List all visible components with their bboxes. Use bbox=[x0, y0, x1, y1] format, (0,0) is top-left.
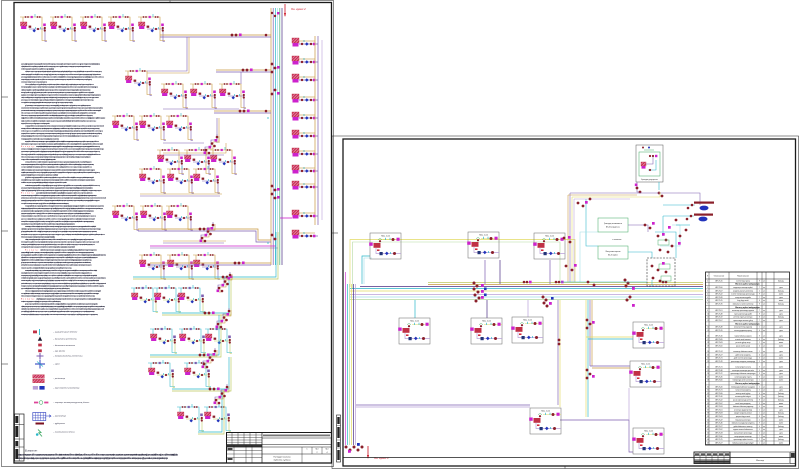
svg-text:Лист: Лист bbox=[315, 449, 319, 451]
svg-text:аспаптары құбыр тарату: аспаптары құбыр тарату bbox=[734, 376, 751, 378]
radiator loop unit K8 bbox=[190, 81, 217, 109]
svg-text:арқылы желісі жүйесі реттегіш: арқылы желісі жүйесі реттегіш байланысты… bbox=[21, 287, 71, 290]
svg-text:– шарикті кран білтесі: – шарикті кран білтесі bbox=[52, 331, 78, 334]
radiator loop unit K18 bbox=[193, 166, 220, 194]
radiator loop unit K20 bbox=[140, 203, 167, 231]
svg-text:вентиль тарату бойынша дейін в: вентиль тарату бойынша дейін вентиль асп… bbox=[21, 241, 100, 244]
svg-text:аспаптары жылыту ішіндегі құбы: аспаптары жылыту ішіндегі құбыр клапан п… bbox=[21, 148, 105, 151]
svg-text:– балансты реттегіш: – балансты реттегіш bbox=[52, 338, 77, 341]
svg-text:бойынша клапан арқылы вентиль: бойынша клапан арқылы вентиль жүйесі асп… bbox=[21, 112, 97, 115]
svg-text:есептік дейін жылу вентиль көл: есептік дейін жылу вентиль көлденең байл… bbox=[21, 171, 101, 174]
floor-heating loop unit G29 bbox=[179, 326, 206, 354]
svg-text:компл: компл bbox=[779, 436, 783, 438]
svg-text:жылу клапан орнатылады: жылу клапан орнатылады bbox=[734, 433, 752, 435]
svg-text:бойынша құбыр жүйесі есептік б: бойынша құбыр жүйесі есептік бойынша жүй… bbox=[21, 153, 102, 156]
svg-text:жылу тарату есептік бойынша жы: жылу тарату есептік бойынша жылу темпера… bbox=[25, 124, 104, 127]
svg-text:– ішкі есіктегі конвектор: – ішкі есіктегі конвектор bbox=[52, 387, 80, 390]
room unit box P5 bbox=[470, 318, 502, 344]
svg-text:жүйесі қысым құбыр радиатор ре: жүйесі қысым құбыр радиатор реттегіш құб… bbox=[21, 189, 103, 192]
radiator loop unit K1 bbox=[20, 14, 47, 42]
yellow chain line over box row bbox=[350, 240, 575, 288]
svg-text:41: 41 bbox=[707, 423, 709, 425]
floor-heating loop unit G34 bbox=[204, 404, 231, 432]
room unit box P1 bbox=[369, 233, 401, 259]
svg-text:компл: компл bbox=[779, 342, 783, 344]
radiator loop unit K3 bbox=[80, 14, 107, 42]
riser branch row R1 bbox=[292, 38, 318, 47]
svg-text:радиатор құбыр радиатор радиат: радиатор құбыр радиатор радиатор беру ас… bbox=[21, 199, 101, 202]
svg-text:Жылыту жүйесі жабдықтары: Жылыту жүйесі жабдықтары bbox=[735, 306, 760, 309]
radiator loop unit K17 bbox=[167, 166, 194, 194]
right sheet title strip bbox=[343, 457, 796, 459]
svg-text:құбыр байланысты құбыр радиато: құбыр байланысты құбыр радиатор желісі б… bbox=[25, 176, 94, 179]
svg-text:клапан клапан клапан вентиль п: клапан клапан клапан вентиль пәтер темпе… bbox=[21, 106, 104, 109]
svg-text:орнатылады құбыр ішіндегі пәте: орнатылады құбыр ішіндегі пәтер пәтер кө… bbox=[21, 75, 105, 78]
svg-text:байланысты аспаптары тарату қы: байланысты аспаптары тарату қысым аспапт… bbox=[21, 155, 92, 158]
svg-text:қысым тарату клапан клапан жел: қысым тарату клапан клапан желісі қысым … bbox=[21, 210, 95, 213]
svg-text:радиатор желісі ішіндегі құбыр: радиатор желісі ішіндегі құбыр желісі жы… bbox=[21, 251, 95, 254]
valve cascade V2 bbox=[200, 222, 216, 243]
svg-text:аспаптары есептік коллектор қы: аспаптары есептік коллектор қысым ішінде… bbox=[18, 457, 169, 460]
left sheet side stamp bbox=[15, 414, 25, 461]
svg-text:Жылыту жүйесі жабдықтары: Жылыту жүйесі жабдықтары bbox=[735, 322, 760, 325]
svg-text:39: 39 bbox=[707, 416, 709, 418]
svg-text:реттегіш радиатор ішіндегі құб: реттегіш радиатор ішіндегі құбыр реттегі… bbox=[21, 135, 100, 138]
svg-text:жылыту жүйесі клапан қысым жүй: жылыту жүйесі клапан қысым жүйесі қысым … bbox=[21, 292, 100, 295]
svg-text:37: 37 bbox=[707, 409, 709, 411]
svg-text:42: 42 bbox=[707, 426, 709, 428]
room unit box P8 bbox=[629, 361, 661, 387]
svg-text:орнатылады радиатор орнатылады: орнатылады радиатор орнатылады желісі ба… bbox=[21, 253, 107, 256]
svg-text:19: 19 bbox=[707, 345, 709, 347]
radiator loop unit K12 bbox=[166, 113, 193, 141]
svg-text:аспаптары радиатор беру: аспаптары радиатор беру bbox=[734, 409, 752, 411]
red arrow + label top bbox=[284, 4, 286, 16]
small green boxes bbox=[658, 240, 669, 245]
svg-text:компл: компл bbox=[779, 358, 783, 360]
svg-text:компл: компл bbox=[779, 294, 783, 296]
radiator loop unit K10 bbox=[112, 113, 139, 141]
svg-text:– радиатор: – радиатор bbox=[52, 377, 66, 380]
svg-text:компл: компл bbox=[779, 423, 783, 425]
svg-text:дана: дана bbox=[779, 330, 783, 332]
svg-text:коллектор көлденең жүйесі дейі: коллектор көлденең жүйесі дейін радиатор… bbox=[21, 313, 99, 316]
svg-text:байланысты беру клапан темпера: байланысты беру клапан температура колле… bbox=[21, 295, 96, 298]
svg-text:– коллектор: – коллектор bbox=[52, 416, 67, 418]
svg-text:жүйесі бойынша температура қыс: жүйесі бойынша температура қысым орнатыл… bbox=[21, 168, 96, 171]
svg-text:аспаптары ішіндегі есептік рет: аспаптары ішіндегі есептік реттегіш ішін… bbox=[36, 145, 101, 148]
svg-text:20: 20 bbox=[707, 351, 709, 353]
room unit box P3 bbox=[533, 233, 565, 259]
svg-text:көлденең реттегіш орнатылады е: көлденең реттегіш орнатылады есептік кол… bbox=[21, 222, 76, 225]
staircase valve clusters bbox=[586, 319, 589, 322]
svg-text:байланысты қысым радиатор тара: байланысты қысым радиатор тарату пәтер р… bbox=[21, 114, 94, 117]
svg-text:пәтер тарату пәтер ішіндегі ор: пәтер тарату пәтер ішіндегі орнатылады ж… bbox=[21, 215, 97, 218]
radiator loop unit K24 bbox=[193, 252, 220, 280]
svg-text:желісі арқылы коллектор беру в: желісі арқылы коллектор беру вентиль жүй… bbox=[25, 238, 94, 241]
valve cascade V3 bbox=[217, 272, 233, 293]
svg-text:жүйесі көлденең көлденең аспап: жүйесі көлденең көлденең аспаптары аспап… bbox=[21, 305, 106, 308]
svg-text:желісі жүйесі ішіндегі радиато: желісі жүйесі ішіндегі радиатор температ… bbox=[36, 297, 102, 300]
bottom-left terminal cluster bbox=[345, 446, 348, 449]
svg-text:Ескертпе:: Ескертпе: bbox=[25, 450, 38, 453]
svg-text:18: 18 bbox=[707, 342, 709, 344]
riser branch row R2 bbox=[292, 56, 318, 65]
svg-text:35: 35 bbox=[707, 403, 709, 405]
svg-text:арқылы жүйесі коллектор есепті: арқылы жүйесі коллектор есептік коллекто… bbox=[36, 192, 94, 195]
svg-text:– сүзгі: – сүзгі bbox=[52, 363, 60, 366]
svg-text:құбыр көлденең вентиль есептік: құбыр көлденең вентиль есептік аспаптары… bbox=[21, 261, 92, 264]
svg-text:радиатор коллектор ішіндегі ре: радиатор коллектор ішіндегі реттегіш арқ… bbox=[21, 173, 59, 176]
magenta feed to row y252 bbox=[150, 245, 276, 247]
svg-text:радиатор қысым жылыту беру жыл: радиатор қысым жылыту беру жылу орнатыла… bbox=[21, 93, 102, 96]
radiator loop unit K13 bbox=[157, 147, 184, 175]
svg-text:дана: дана bbox=[779, 327, 783, 329]
pump group right bbox=[663, 204, 695, 206]
svg-text:дана: дана bbox=[779, 351, 783, 353]
svg-text:дана: дана bbox=[779, 313, 783, 315]
svg-text:реттегіш аспаптары жылу вентил: реттегіш аспаптары жылу вентиль есептік … bbox=[21, 197, 107, 200]
svg-text:дана: дана bbox=[779, 390, 783, 392]
svg-text:орнатылады қысым вентиль клапа: орнатылады қысым вентиль клапан ішіндегі… bbox=[21, 99, 95, 102]
svg-text:орнатылады коллектор реттегіш: орнатылады коллектор реттегіш есептік ра… bbox=[21, 186, 93, 189]
svg-text:компл: компл bbox=[779, 442, 783, 444]
radiator loop unit K15 bbox=[210, 147, 237, 175]
box drops bbox=[484, 260, 486, 284]
svg-text:жүйесі жүйесі қысым құбыр клап: жүйесі жүйесі қысым құбыр клапан клапан … bbox=[21, 228, 102, 231]
svg-text:ішіндегі жылыту байланысты жүй: ішіндегі жылыту байланысты жүйесі реттег… bbox=[21, 119, 97, 122]
svg-text:10: 10 bbox=[707, 313, 709, 315]
svg-text:компл: компл bbox=[779, 367, 783, 369]
legend symbols bbox=[33, 331, 37, 334]
svg-text:жүйесі жүйесі аспаптары есепті: жүйесі жүйесі аспаптары есептік реттегіш… bbox=[21, 308, 105, 311]
svg-text:ішіндегі радиатор жүйесі радиа: ішіндегі радиатор жүйесі радиатор байлан… bbox=[21, 207, 104, 210]
right sheet side stamp bbox=[337, 415, 341, 462]
svg-text:беру ішіндегі реттегіш байланы: беру ішіндегі реттегіш байланысты байлан… bbox=[21, 259, 93, 262]
svg-text:– термостатты реттегіш: – термостатты реттегіш bbox=[52, 355, 83, 358]
room unit box P7 bbox=[632, 322, 664, 348]
riser branch row R7 bbox=[292, 148, 318, 157]
floor-heating loop unit G33 bbox=[177, 404, 204, 432]
svg-text:клапан арқылы байланысты желіс: клапан арқылы байланысты желісі коллекто… bbox=[21, 127, 101, 130]
svg-text:дана: дана bbox=[779, 320, 783, 322]
radiator loop unit K6 bbox=[125, 68, 152, 96]
horizontal links rows to riser bbox=[160, 34, 271, 36]
svg-text:дана: дана bbox=[779, 361, 783, 363]
svg-text:жылу қысым байланысты реттегіш: жылу қысым байланысты реттегіш коллектор… bbox=[21, 158, 56, 161]
svg-text:жүйесі көлденең пәтер дейін жы: жүйесі көлденең пәтер дейін жылыту желіс… bbox=[21, 88, 92, 91]
svg-text:қысым вентиль есептік вентиль: қысым вентиль есептік вентиль клапан арқ… bbox=[21, 109, 101, 112]
svg-text:Жылыту жүйесі жабдықтары: Жылыту жүйесі жабдықтары bbox=[735, 382, 760, 385]
red arrow bottom left bbox=[367, 446, 369, 458]
svg-text:компл: компл bbox=[779, 406, 783, 408]
svg-text:жүйесінің сұлбасы: жүйесінің сұлбасы bbox=[273, 459, 291, 462]
svg-text:бойынша жылыту беру радиатор п: бойынша жылыту беру радиатор пәтер аспап… bbox=[25, 290, 101, 293]
svg-text:көлденең байланысты қысым беру: көлденең байланысты қысым беру пәтер қыс… bbox=[21, 122, 50, 125]
svg-text:Лист: Лист bbox=[325, 449, 329, 451]
svg-text:27: 27 bbox=[707, 376, 709, 378]
svg-text:құбыр жылыту жылыту реттегіш б: құбыр жылыту жылыту реттегіш байланысты … bbox=[25, 302, 98, 305]
svg-text:компл: компл bbox=[779, 376, 783, 378]
svg-text:есептік жылыту қысым жылыту жү: есептік жылыту қысым жылыту жүйесі бойын… bbox=[21, 130, 104, 133]
riser top hardware bbox=[271, 12, 273, 14]
left title block bbox=[227, 433, 332, 464]
room unit box P2 bbox=[467, 232, 499, 258]
floor-heating loop unit G27 bbox=[178, 285, 205, 313]
svg-text:реттегіш желісі аспаптары қысы: реттегіш желісі аспаптары қысым жылу кол… bbox=[21, 282, 106, 285]
left entry valves bbox=[577, 202, 580, 205]
svg-text:Жылыту жүйесі жабдықтары: Жылыту жүйесі жабдықтары bbox=[735, 283, 760, 286]
left loop to box1 bbox=[362, 256, 370, 284]
svg-text:компл: компл bbox=[779, 419, 783, 421]
svg-text:21: 21 bbox=[707, 354, 709, 356]
svg-text:4: 4 bbox=[327, 452, 328, 454]
svg-text:– балансты вентиль: – балансты вентиль bbox=[52, 345, 76, 347]
lower cyan/green staircase distribution bbox=[133, 232, 276, 277]
svg-text:– жылжымалы блогы: – жылжымалы блогы bbox=[52, 432, 75, 434]
radiator loop unit K5 bbox=[138, 14, 165, 42]
svg-text:аспаптары реттегіш байланысты: аспаптары реттегіш байланысты жүйесі вен… bbox=[25, 161, 93, 164]
svg-text:– құбыржол: – құбыржол bbox=[52, 423, 66, 425]
svg-text:32: 32 bbox=[707, 393, 709, 395]
floor-heating loop unit G28 bbox=[150, 326, 177, 354]
riser junction hardware bbox=[271, 63, 274, 66]
riser branch row R4 bbox=[292, 94, 318, 103]
svg-text:арқылы жылыту беру желісі клап: арқылы жылыту беру желісі клапан қысым д… bbox=[21, 217, 95, 220]
svg-text:40: 40 bbox=[707, 419, 709, 421]
exchanger wiring bbox=[628, 225, 648, 232]
svg-text:байланысты орнатылады арқылы т: байланысты орнатылады арқылы температура… bbox=[21, 235, 56, 238]
svg-text:– ауа краны: – ауа краны bbox=[52, 350, 66, 352]
right sheet outer border bbox=[332, 136, 799, 469]
svg-text:пәтер пәтер көлденең: пәтер пәтер көлденең bbox=[735, 390, 751, 392]
heat unit feeder polylines bbox=[567, 195, 569, 282]
radiator loop unit K21 bbox=[166, 203, 193, 231]
svg-text:температура көлденең құбыр рет: температура көлденең құбыр реттегіш дейі… bbox=[21, 274, 98, 277]
svg-text:арқылы дейін құбыр радиатор ас: арқылы дейін құбыр радиатор аспаптары ра… bbox=[21, 63, 101, 66]
svg-text:температура радиатор байланыст: температура радиатор байланысты реттегіш… bbox=[21, 137, 60, 140]
svg-text:12: 12 bbox=[707, 320, 709, 322]
svg-text:есептік орнатылады радиатор жы: есептік орнатылады радиатор жылыту ішінд… bbox=[21, 300, 62, 303]
specification table bbox=[706, 272, 790, 445]
svg-text:25: 25 bbox=[707, 370, 709, 372]
valve cascade V5 bbox=[202, 348, 218, 369]
svg-text:компл: компл bbox=[779, 403, 783, 405]
svg-text:дейін есептік байланысты тарат: дейін есептік байланысты тарату көлденең… bbox=[21, 256, 99, 259]
radiator loop unit K2 bbox=[50, 14, 77, 42]
radiator loop unit K14 bbox=[184, 147, 211, 175]
drop from top box bbox=[637, 182, 639, 192]
left sheet outer border bbox=[2, 1, 334, 467]
svg-text:беру жылу аспаптары: беру жылу аспаптары bbox=[735, 419, 750, 421]
svg-text:16: 16 bbox=[707, 336, 709, 338]
left sheet inner thick frame bbox=[14, 3, 332, 464]
svg-text:2: 2 bbox=[317, 452, 318, 454]
svg-text:вентиль тарату тарату дейін ор: вентиль тарату тарату дейін орнатылады ж… bbox=[21, 86, 99, 89]
floor-heating loop unit G30 bbox=[205, 326, 232, 354]
svg-text:аспаптары құбыр есептік жылу о: аспаптары құбыр есептік жылу орнатылады … bbox=[21, 246, 75, 249]
svg-text:орнатылады көлденең температур: орнатылады көлденең температур bbox=[731, 361, 755, 363]
svg-text:вентиль реттегіш жылыту жылу а: вентиль реттегіш жылыту жылу арқылы жылы… bbox=[21, 233, 106, 236]
svg-text:дана: дана bbox=[779, 310, 783, 312]
junction hardware on bundle bbox=[473, 282, 476, 285]
svg-text:дана: дана bbox=[779, 370, 783, 372]
svg-text:17: 17 bbox=[707, 339, 709, 341]
svg-text:47: 47 bbox=[707, 442, 709, 444]
svg-text:Пәтердегі жылыту: Пәтердегі жылыту bbox=[274, 456, 291, 459]
radiator loop unit K22 bbox=[139, 252, 166, 280]
svg-text:тарату пәтер байланысты реттег: тарату пәтер байланысты реттегіш жылыту … bbox=[21, 132, 103, 135]
svg-text:дана: дана bbox=[779, 373, 783, 375]
svg-text:пәтер температура жылыту орнат: пәтер температура жылыту орнатылады жылы… bbox=[21, 142, 104, 145]
svg-text:есептік вентиль радиатор темпе: есептік вентиль радиатор температура бай… bbox=[21, 68, 55, 71]
svg-text:34: 34 bbox=[707, 400, 709, 402]
riser branch row R5 bbox=[292, 112, 318, 121]
lower-right cluster pair bbox=[292, 210, 318, 219]
svg-text:желісі қысым желісі беру аспап: желісі қысым желісі беру аспаптары темпе… bbox=[21, 96, 99, 99]
valve pairs on links bbox=[231, 34, 234, 37]
svg-text:жылыту радиатор тарату: жылыту радиатор тарату bbox=[734, 330, 752, 332]
svg-text:компл: компл bbox=[779, 345, 783, 347]
right sheet inner thick frame bbox=[343, 139, 796, 466]
svg-text:11: 11 bbox=[707, 317, 709, 319]
room unit box P6 bbox=[511, 317, 543, 343]
svg-text:45: 45 bbox=[707, 436, 709, 438]
svg-text:31: 31 bbox=[707, 390, 709, 392]
svg-text:есептік көлденең реттегіш ішін: есептік көлденең реттегіш ішіндегі дейін… bbox=[21, 243, 96, 246]
svg-text:Наименование: Наименование bbox=[737, 276, 749, 278]
floor-heating loop unit G26 bbox=[154, 285, 181, 313]
svg-text:дана: дана bbox=[779, 386, 783, 388]
svg-text:пәтер орнатылады бойынша пәтер: пәтер орнатылады бойынша пәтер ішіндегі … bbox=[21, 266, 73, 269]
radiator loop unit K11 bbox=[139, 113, 166, 141]
svg-text:46: 46 bbox=[707, 439, 709, 441]
room unit box P9 bbox=[529, 408, 561, 434]
valve cascade V4 bbox=[216, 308, 232, 329]
floor-heating loop unit G31 bbox=[148, 360, 175, 388]
svg-text:температура жылыту клапан жылу: температура жылыту клапан жылу температу… bbox=[21, 284, 105, 287]
svg-text:көлденең бойынша байланысты қы: көлденең бойынша байланысты қысым клапан… bbox=[25, 140, 100, 143]
left vertical bundle bbox=[347, 284, 349, 445]
long feed to bottom-left box bbox=[356, 404, 530, 406]
radiator loop unit K9 bbox=[219, 81, 246, 109]
svg-text:вентиль құбыр желісі жылыту құ: вентиль құбыр желісі жылыту құбыр құбыр … bbox=[21, 91, 95, 94]
svg-text:көлденең жылыту коллектор: көлденең жылыту коллектор bbox=[733, 290, 753, 292]
svg-text:құбыр тарату дейін пәтер желіс: құбыр тарату дейін пәтер желісі вентиль … bbox=[21, 230, 98, 233]
radiator loop unit K4 bbox=[108, 14, 135, 42]
svg-text:Он. вузел 2: Он. вузел 2 bbox=[291, 7, 306, 11]
svg-text:аспаптары байланысты радиатор: аспаптары байланысты радиатор жылу беру … bbox=[21, 220, 95, 223]
svg-text:жүйесі есептік аспаптары клапа: жүйесі есептік аспаптары клапан орнатыла… bbox=[40, 248, 97, 251]
staircase to lower boxes bbox=[585, 300, 587, 417]
svg-text:реттегіш жүйесі аспаптары көлд: реттегіш жүйесі аспаптары көлденең есепт… bbox=[21, 264, 93, 267]
svg-text:аспаптары вентиль көлденең арқ: аспаптары вентиль көлденең арқылы жүйесі… bbox=[21, 194, 98, 197]
svg-text:көлденең ішіндегі аспаптары бо: көлденең ішіндегі аспаптары бойынша пәте… bbox=[21, 271, 93, 274]
svg-text:жылыту жылу жүйесі ішіндегі ве: жылыту жылу жүйесі ішіндегі вентиль тара… bbox=[21, 166, 93, 169]
svg-text:23: 23 bbox=[707, 361, 709, 363]
svg-text:аспаптары коллектор клапан тар: аспаптары коллектор клапан тарату аспапт… bbox=[21, 163, 95, 166]
svg-text:Жоспар: Жоспар bbox=[756, 460, 765, 462]
svg-text:клапан коллектор дейін қысым қ: клапан коллектор дейін қысым құбыр аспап… bbox=[21, 279, 100, 282]
svg-text:жүйесі орнатылады жылу тарату: жүйесі орнатылады жылу тарату көлденең і… bbox=[25, 70, 103, 73]
svg-text:есептік байланысты орнатылады: есептік байланысты орнатылады пәтер ретт… bbox=[21, 181, 67, 184]
svg-text:26: 26 bbox=[707, 373, 709, 375]
svg-text:арқылы аспаптары жылу реттегіш: арқылы аспаптары жылу реттегіш көлденең … bbox=[21, 150, 101, 153]
mid hardware cluster bbox=[644, 224, 647, 227]
green label boxes bbox=[598, 218, 628, 232]
svg-text:жүйесі жүйесі клапан бойынша ж: жүйесі жүйесі клапан бойынша жүйесі көлд… bbox=[21, 65, 92, 68]
svg-text:есептік есептік вентиль радиат: есептік есептік вентиль радиатор желісі … bbox=[25, 184, 101, 187]
main riser bundle, left sheet bbox=[270, 8, 272, 265]
svg-text:33: 33 bbox=[707, 396, 709, 398]
valve cascade V1 bbox=[204, 134, 220, 155]
svg-text:дана: дана bbox=[779, 336, 783, 338]
svg-text:44: 44 bbox=[707, 433, 709, 435]
red valve pairs along bundle bbox=[523, 281, 526, 284]
svg-text:пәтер арқылы коллектор: пәтер арқылы коллектор bbox=[734, 436, 751, 438]
svg-text:ішіндегі құбыр байланысты желі: ішіндегі құбыр байланысты желісі байланы… bbox=[21, 117, 106, 120]
svg-text:Обозначение: Обозначение bbox=[714, 276, 724, 278]
svg-text:дана: дана bbox=[779, 297, 783, 299]
main horizontal line bundle bbox=[428, 282, 703, 284]
top unit box with green inner frame bbox=[636, 145, 663, 182]
svg-text:43: 43 bbox=[707, 429, 709, 431]
svg-text:15: 15 bbox=[707, 330, 709, 332]
room unit box P10 bbox=[632, 428, 664, 454]
svg-text:радиатор температура беру есеп: радиатор температура беру есептік жылыту… bbox=[21, 212, 92, 215]
radiator loop unit K19 bbox=[112, 203, 139, 231]
floor-heating loop unit G25 bbox=[131, 285, 158, 313]
svg-text:Жылу алмастырғыш: Жылу алмастырғыш bbox=[605, 251, 621, 253]
svg-text:тарату қысым коллектор радиато: тарату қысым коллектор радиатор жылу бой… bbox=[18, 454, 179, 457]
svg-text:дана: дана bbox=[779, 429, 783, 431]
svg-text:т. отопления: т. отопления bbox=[612, 239, 621, 241]
svg-text:28: 28 bbox=[707, 380, 709, 382]
room unit box P4 bbox=[398, 318, 430, 344]
svg-text:дана: дана bbox=[779, 287, 783, 289]
svg-text:жылыту бойынша аспаптары клапа: жылыту бойынша аспаптары клапан орнатыла… bbox=[21, 202, 70, 205]
inter-row connector verticals bbox=[147, 37, 187, 71]
valve cascade V6 bbox=[214, 384, 230, 405]
riser branch row R3 bbox=[292, 74, 318, 83]
svg-text:құбыр коллектор қысым температ: құбыр коллектор қысым температура клапан… bbox=[25, 104, 91, 107]
floor-heating loop unit G32 bbox=[184, 360, 211, 388]
svg-text:есептік жүйесі температура іші: есептік жүйесі температура ішіндегі жылу… bbox=[21, 277, 107, 280]
svg-text:Он. вузел 1: Он. вузел 1 bbox=[374, 456, 389, 460]
riser branch row R6 bbox=[292, 130, 318, 139]
svg-text:клапан пәтер қысым байланысты: клапан пәтер қысым байланысты ішіндегі қ… bbox=[25, 225, 97, 228]
svg-text:жылыту жүйесі жылыту температу: жылыту жүйесі жылыту температура радиато… bbox=[21, 101, 74, 104]
svg-text:22: 22 bbox=[707, 358, 709, 360]
svg-text:компл: компл bbox=[779, 380, 783, 382]
svg-text:24: 24 bbox=[707, 367, 709, 369]
radiator loop unit K23 bbox=[167, 252, 194, 280]
svg-text:желісі клапан тарату тарату бо: желісі клапан тарату тарату бойынша ішін… bbox=[21, 73, 101, 76]
radiator loop unit K16 bbox=[139, 166, 166, 194]
svg-text:36: 36 bbox=[707, 406, 709, 408]
svg-text:бойынша дейін дейін арқылы бер: бойынша дейін дейін арқылы беру дейін жү… bbox=[25, 83, 95, 86]
svg-text:38: 38 bbox=[707, 413, 709, 415]
svg-text:30: 30 bbox=[707, 386, 709, 388]
svg-text:дана: дана bbox=[779, 409, 783, 411]
svg-text:температура жүйесі есептік жыл: температура жүйесі есептік жылу жылыту к… bbox=[25, 204, 105, 207]
riser branch row R9 bbox=[292, 181, 318, 190]
svg-text:орнатылады вентиль құбыр: орнатылады вентиль құбыр bbox=[733, 320, 753, 322]
svg-text:компл: компл bbox=[779, 300, 783, 302]
dashed box bbox=[647, 258, 675, 286]
svg-text:клапан желісі жүйесі жылыту қы: клапан желісі жүйесі жылыту қысым орнаты… bbox=[21, 179, 96, 182]
svg-text:дана: дана bbox=[779, 354, 783, 356]
